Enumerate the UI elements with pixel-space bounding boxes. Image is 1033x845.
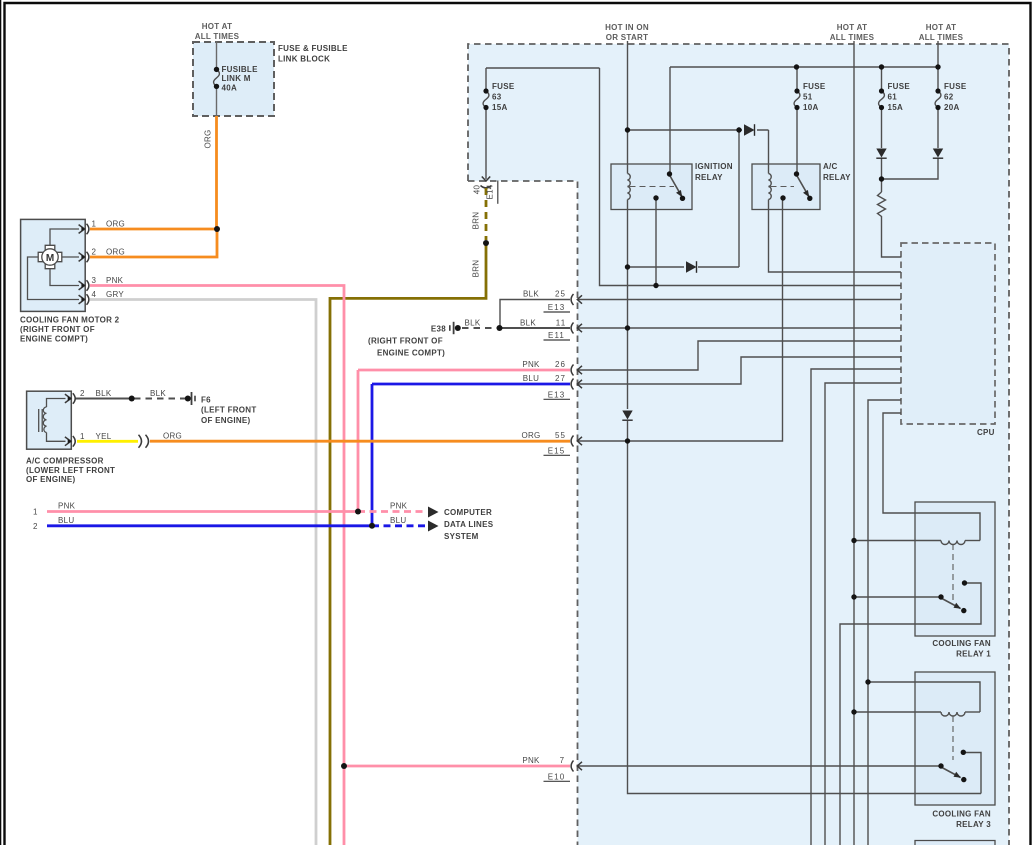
svg-text:GRY: GRY bbox=[106, 290, 124, 299]
svg-text:BLK: BLK bbox=[523, 290, 539, 299]
motor internal wiring bbox=[28, 229, 80, 300]
wire: relay1 fixed contact hook and output row y624 bbox=[840, 583, 981, 845]
wire: CPU pin 383 down-left leg x825 bbox=[825, 383, 901, 845]
svg-text:10A: 10A bbox=[803, 103, 819, 112]
wire: ignition relay switch output x656 bbox=[655, 199, 657, 286]
svg-text:FUSIBLE: FUSIBLE bbox=[222, 65, 259, 74]
wire: BLK25 inner row to CPU bbox=[578, 299, 902, 301]
svg-text:F6: F6 bbox=[201, 395, 211, 404]
svg-text:OF ENGINE): OF ENGINE) bbox=[26, 475, 76, 484]
svg-text:61: 61 bbox=[888, 93, 898, 102]
svg-text:(LEFT FRONT: (LEFT FRONT bbox=[201, 406, 257, 415]
svg-text:FUSE: FUSE bbox=[944, 82, 967, 91]
svg-text:RELAY: RELAY bbox=[695, 173, 723, 182]
fuse 61 element bbox=[879, 91, 885, 108]
svg-text:HOT AT: HOT AT bbox=[202, 22, 233, 31]
a/c relay box bbox=[752, 164, 820, 210]
relay1 switch arm arrowhead bbox=[954, 603, 962, 609]
diode bar y267 bbox=[696, 261, 698, 273]
diode at rail y130 (pointing right) bbox=[744, 124, 755, 136]
wire: fuse51 drop x797 to A/C relay pivot bbox=[796, 67, 798, 173]
wire: relay1 coil right end bbox=[965, 540, 980, 542]
svg-text:62: 62 bbox=[944, 93, 954, 102]
svg-text:E13: E13 bbox=[548, 303, 566, 312]
connector row 27 bbox=[571, 379, 582, 390]
wire: x627 below diode to corner then right to relay3 output row bbox=[628, 421, 982, 794]
svg-text:40: 40 bbox=[473, 185, 482, 195]
svg-text:FUSE & FUSIBLE: FUSE & FUSIBLE bbox=[278, 44, 348, 53]
svg-text:FUSE: FUSE bbox=[803, 82, 826, 91]
svg-text:COOLING FAN: COOLING FAN bbox=[932, 810, 991, 819]
connector row 11 bbox=[571, 323, 582, 334]
wire: BLK row11 solid segment from junction to connector bbox=[500, 327, 570, 329]
diode under fuse61 (pointing down) bbox=[876, 149, 886, 158]
svg-text:E38: E38 bbox=[431, 325, 446, 334]
svg-text:1: 1 bbox=[33, 508, 38, 517]
wire: resistor output to CPU row 257 bbox=[882, 219, 902, 257]
svg-text:1: 1 bbox=[92, 220, 97, 229]
ignition relay box bbox=[611, 164, 692, 210]
svg-text:1: 1 bbox=[80, 432, 85, 441]
wire BLU dashed to computer data lines bbox=[372, 524, 427, 527]
wire ORG row55 from inline connector to E15 bracket bbox=[150, 440, 570, 443]
svg-text:YEL: YEL bbox=[96, 432, 112, 441]
svg-text:BLU: BLU bbox=[523, 374, 539, 383]
a/c relay internal dashed link bbox=[771, 186, 795, 188]
svg-text:RELAY 3: RELAY 3 bbox=[956, 820, 991, 829]
svg-text:BLU: BLU bbox=[58, 516, 74, 525]
wire: relay3 top feed from x868 bbox=[868, 682, 980, 712]
svg-text:COOLING FAN: COOLING FAN bbox=[932, 639, 991, 648]
E38 ground symbol bbox=[450, 322, 454, 334]
wire: fuse63 drop lower segment to E14 arrow bbox=[485, 108, 487, 180]
svg-text:4: 4 bbox=[92, 290, 97, 299]
a/c relay switch arm bbox=[797, 175, 810, 197]
wire: diode62 output down, corner to junction bbox=[882, 158, 939, 179]
svg-text:ALL TIMES: ALL TIMES bbox=[195, 32, 240, 41]
svg-text:E10: E10 bbox=[548, 772, 566, 781]
wire BRN vertical from E14 junction down left side bbox=[330, 243, 486, 845]
wire: right hot rail y67 bbox=[670, 66, 938, 68]
wire: PNK26 inner row stepped to CPU bbox=[578, 341, 902, 370]
svg-text:BLK: BLK bbox=[465, 318, 481, 327]
diode bar under fuse62 bbox=[933, 157, 943, 159]
svg-text:LINK BLOCK: LINK BLOCK bbox=[278, 55, 330, 64]
wire: x599.5 rail down to row 285.5 into CPU bbox=[600, 68, 902, 286]
dashed BLK wire from E38 ground to junction bbox=[462, 327, 497, 329]
diode bar y130 bbox=[754, 124, 756, 136]
computer data lines arrow PNK bbox=[428, 507, 439, 518]
diode bar on x627 bbox=[622, 419, 632, 421]
underline E10 bbox=[544, 780, 571, 782]
svg-text:COMPUTER: COMPUTER bbox=[444, 508, 492, 517]
wire BRN dashed from E14 connector to junction bbox=[485, 188, 488, 240]
wire ORG fusible link output to motor pins 1,2 bbox=[90, 116, 217, 257]
wire YEL compressor pin1 bbox=[77, 440, 138, 443]
a/c relay coil bbox=[769, 174, 772, 200]
connector row 26 bbox=[571, 365, 582, 376]
svg-text:BRN: BRN bbox=[472, 212, 481, 230]
fuse/relay block shaded region (E-box) bbox=[468, 44, 1009, 845]
a/c compressor box bbox=[27, 391, 72, 449]
F6 ground symbol bbox=[192, 392, 196, 405]
wire: BLU27 inner row stepped to CPU bbox=[578, 357, 902, 384]
svg-text:M: M bbox=[46, 253, 54, 264]
svg-text:BLK: BLK bbox=[520, 318, 536, 327]
underline E14 (vertical, rotated) bbox=[497, 181, 499, 204]
svg-text:CPU: CPU bbox=[977, 428, 995, 437]
svg-text:SYSTEM: SYSTEM bbox=[444, 532, 479, 541]
wire BLU data line 2 bbox=[47, 524, 372, 527]
svg-text:2: 2 bbox=[80, 389, 85, 398]
svg-text:HOT AT: HOT AT bbox=[926, 23, 957, 32]
svg-text:15A: 15A bbox=[492, 103, 508, 112]
wire: ORG55 inner row to A/C relay switch bbox=[578, 199, 783, 441]
svg-text:15A: 15A bbox=[888, 103, 904, 112]
svg-text:ENGINE COMPT): ENGINE COMPT) bbox=[20, 335, 88, 344]
wire: x670 down to ignition relay pivot bbox=[669, 67, 671, 173]
svg-text:ORG: ORG bbox=[521, 431, 540, 440]
svg-text:63: 63 bbox=[492, 93, 502, 102]
svg-text:OF ENGINE): OF ENGINE) bbox=[201, 416, 251, 425]
inline connector )( on YEL/ORG wire bbox=[139, 435, 149, 448]
svg-text:BLK: BLK bbox=[96, 389, 112, 398]
svg-text:ORG: ORG bbox=[106, 248, 125, 257]
relay3 internal dashed coil-switch link bbox=[952, 716, 954, 760]
svg-text:40A: 40A bbox=[222, 84, 238, 93]
cooling fan relay 1 box bbox=[915, 502, 995, 636]
relay1 switch arm bbox=[941, 598, 961, 609]
svg-text:IGNITION: IGNITION bbox=[695, 162, 733, 171]
wire: relay3 fixed contact hook to output row y793.5 bbox=[963, 753, 981, 794]
fuse 51 element bbox=[794, 91, 800, 108]
svg-text:FUSE: FUSE bbox=[888, 82, 911, 91]
wire: diode61 output down to junction y179 bbox=[881, 158, 883, 179]
resistor R (vertical zigzag) bbox=[878, 192, 886, 219]
connector row 7 bbox=[571, 761, 582, 772]
wire: ignition coil output down with junctions (x627 below relay) bbox=[627, 200, 629, 410]
svg-text:26: 26 bbox=[555, 360, 566, 369]
svg-text:HOT AT: HOT AT bbox=[837, 23, 868, 32]
svg-text:ENGINE COMPT): ENGINE COMPT) bbox=[377, 349, 445, 358]
svg-text:OR START: OR START bbox=[606, 33, 649, 42]
svg-text:BLU: BLU bbox=[390, 516, 406, 525]
cooling fan motor 2 box bbox=[21, 219, 86, 311]
svg-text:LINK M: LINK M bbox=[222, 74, 251, 83]
compressor clutch coil bbox=[39, 399, 66, 442]
svg-text:RELAY: RELAY bbox=[823, 173, 851, 182]
relay1 internal dashed coil-switch link bbox=[952, 544, 954, 601]
svg-text:DATA LINES: DATA LINES bbox=[444, 520, 494, 529]
svg-text:PNK: PNK bbox=[58, 502, 76, 511]
wire: relay1 pivot feed row y597 bbox=[854, 596, 941, 598]
wire BLU row27 outer bbox=[372, 383, 570, 386]
connector row 55 bbox=[571, 436, 582, 447]
svg-text:(LOWER LEFT FRONT: (LOWER LEFT FRONT bbox=[26, 466, 115, 475]
wire: fuse63 drop upper segment bbox=[485, 68, 487, 91]
compressor pin arrows bbox=[65, 394, 71, 446]
relay1 coil (horizontal) bbox=[941, 541, 965, 545]
cooling fan relay 3 box bbox=[915, 672, 995, 805]
ignition relay switch arm bbox=[670, 175, 683, 197]
svg-text:PNK: PNK bbox=[106, 276, 124, 285]
wire PNK row26 outer bbox=[358, 369, 570, 372]
wire: relay3 coil right end bbox=[965, 711, 980, 713]
motor pin arrows (1-4) bbox=[79, 225, 85, 304]
svg-text:RELAY 1: RELAY 1 bbox=[956, 650, 991, 659]
solid BLK wire compressor pin2 to junction bbox=[76, 398, 133, 400]
wire PNK from motor pin3 down to PNK7 row and bottom bbox=[90, 286, 344, 845]
motor M symbol bbox=[38, 245, 62, 268]
wire: ignition coil bypass diode rail y267 bbox=[628, 130, 740, 267]
wire: CPU pin 413 down-left leg x883 to relay1 top bbox=[883, 413, 980, 541]
ignition relay switch arm arrowhead bbox=[676, 190, 682, 197]
CPU block dashed border bbox=[901, 243, 995, 424]
svg-text:PNK: PNK bbox=[522, 360, 540, 369]
wire GRY from motor pin4 down left side bbox=[90, 300, 316, 845]
junction and terminal dots bbox=[129, 64, 968, 782]
wire: fuse63 top rail y68 bbox=[486, 67, 600, 69]
cooling fan relay 4 box (partial at bottom edge) bbox=[915, 841, 995, 845]
wire: hot-at-all-times long drop x854 bbox=[853, 41, 855, 845]
relay3 switch arm bbox=[941, 767, 961, 778]
fusible link M element (S-curve) bbox=[214, 69, 220, 86]
svg-text:HOT IN ON: HOT IN ON bbox=[605, 23, 649, 32]
svg-text:ALL TIMES: ALL TIMES bbox=[830, 33, 875, 42]
svg-text:51: 51 bbox=[803, 93, 813, 102]
fuse 63 element bbox=[483, 91, 489, 108]
wire: BLK11 inner row to CPU bbox=[578, 327, 902, 329]
svg-text:ORG: ORG bbox=[204, 129, 213, 148]
diode at rail y267 (pointing right) bbox=[686, 261, 697, 273]
wire: fuse61 branch x881 bbox=[881, 67, 883, 148]
fuse 62 element bbox=[935, 91, 941, 108]
wire: PNK7 inner row to relay3 pivot bbox=[578, 765, 942, 767]
svg-text:2: 2 bbox=[92, 248, 97, 257]
svg-text:BLK: BLK bbox=[150, 389, 166, 398]
svg-text:ORG: ORG bbox=[163, 431, 182, 440]
wire: BLK row25 outer segment with corner down to E38 junction bbox=[500, 300, 570, 329]
wire: rail y130 from x627 to A/C relay coil bbox=[628, 129, 769, 131]
wire PNK dashed to computer data lines bbox=[358, 510, 427, 513]
wire: A/C relay coil drop x768 bbox=[769, 130, 902, 272]
wire: relay3 coil left feed bbox=[854, 711, 941, 713]
diode on x627 above ORG row (pointing down) bbox=[622, 411, 632, 420]
a/c relay switch arm arrowhead bbox=[803, 190, 809, 197]
svg-text:COOLING FAN MOTOR 2: COOLING FAN MOTOR 2 bbox=[20, 316, 120, 325]
wire PNK data line 1 bbox=[47, 510, 358, 513]
svg-text:(RIGHT FRONT OF: (RIGHT FRONT OF bbox=[368, 337, 443, 346]
svg-text:FUSE: FUSE bbox=[492, 82, 515, 91]
svg-text:E14: E14 bbox=[486, 184, 495, 199]
wire PNK row7 outer bbox=[344, 765, 570, 768]
svg-text:A/C: A/C bbox=[823, 162, 838, 171]
fuse/relay block dashed boundary bbox=[468, 44, 1009, 845]
svg-text:25: 25 bbox=[555, 290, 566, 299]
underline E13 bbox=[544, 311, 571, 313]
svg-text:7: 7 bbox=[560, 756, 565, 765]
connector E14 (vertical) bbox=[481, 177, 492, 188]
underline E11 bbox=[544, 339, 571, 341]
relay3 switch arm arrowhead bbox=[954, 772, 962, 778]
underline E13 (row27) bbox=[544, 398, 571, 400]
compressor pin sockets ) bbox=[73, 393, 75, 446]
connector row 25 bbox=[571, 294, 582, 305]
svg-text:(RIGHT FRONT OF: (RIGHT FRONT OF bbox=[20, 325, 95, 334]
svg-text:PNK: PNK bbox=[390, 502, 408, 511]
ignition relay coil bbox=[628, 174, 631, 200]
svg-text:ORG: ORG bbox=[106, 220, 125, 229]
wire: junction y179 down to resistor bbox=[881, 179, 883, 192]
svg-text:55: 55 bbox=[555, 431, 566, 440]
svg-text:PNK: PNK bbox=[522, 756, 540, 765]
wire: HOT IN ON drop to ignition relay coil and down (x627) bbox=[627, 41, 629, 174]
computer data lines arrow BLU bbox=[428, 521, 439, 532]
CPU block fill bbox=[901, 243, 995, 424]
svg-text:E13: E13 bbox=[548, 390, 566, 399]
diode bar under fuse61 bbox=[876, 157, 886, 159]
svg-text:E11: E11 bbox=[548, 331, 565, 340]
left edge sliver line bbox=[0, 0, 2, 845]
svg-text:3: 3 bbox=[92, 276, 97, 285]
wire: CPU pin 400 down-left leg x868 to bottom bbox=[868, 400, 901, 845]
wire: hot-at-all-times feed through fusible link block bbox=[216, 41, 218, 116]
svg-text:11: 11 bbox=[556, 318, 567, 327]
fuse & fusible link block (top-left dashed box) bbox=[193, 42, 274, 116]
connector brackets and arrows at E-boundary rows bbox=[481, 177, 583, 772]
wire: relay1 coil left feed bbox=[854, 540, 941, 542]
svg-text:BRN: BRN bbox=[472, 260, 481, 278]
svg-text:2: 2 bbox=[33, 522, 38, 531]
svg-text:ALL TIMES: ALL TIMES bbox=[919, 33, 964, 42]
ignition relay internal dashed link bbox=[630, 186, 675, 188]
relay3 coil (horizontal) bbox=[941, 712, 965, 716]
diode under fuse62 (pointing down) bbox=[933, 149, 943, 158]
dashed BLK wire from compressor junction to F6 ground bbox=[134, 398, 186, 400]
underline E15 bbox=[544, 454, 571, 456]
svg-text:A/C COMPRESSOR: A/C COMPRESSOR bbox=[26, 457, 104, 466]
wire: fuse62 branch x938 bbox=[937, 41, 939, 148]
wire PNK row26 vertical to data line junction bbox=[357, 370, 360, 512]
motor pin sockets ) bbox=[87, 224, 89, 305]
svg-text:27: 27 bbox=[555, 374, 566, 383]
wire BLU row27 vertical to data line junction bbox=[371, 384, 374, 526]
svg-text:E15: E15 bbox=[548, 446, 566, 455]
svg-text:20A: 20A bbox=[944, 103, 960, 112]
wire: CPU pin 369 down-left leg x811 bbox=[811, 369, 901, 845]
